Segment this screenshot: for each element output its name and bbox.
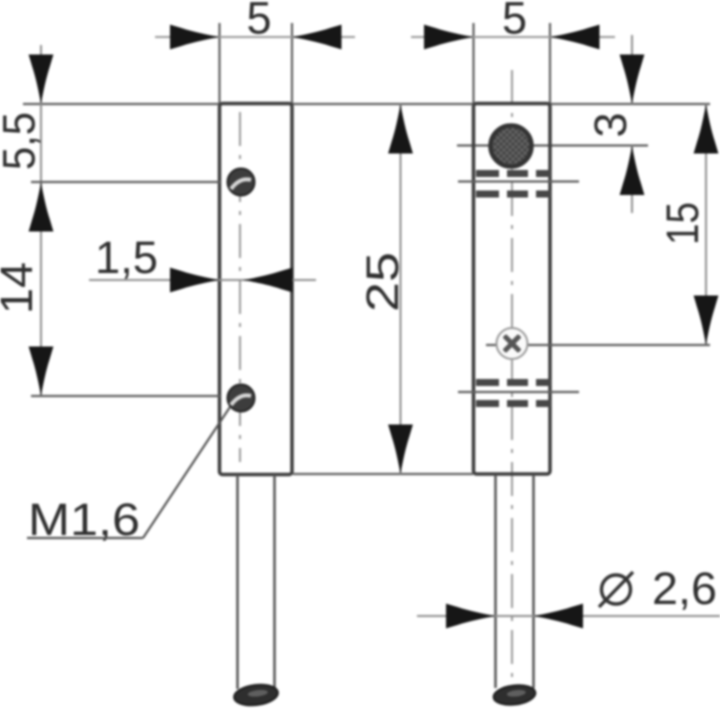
centerline of screws (dash-dot)	[239, 112, 241, 462]
dimension line 5 (top left)	[155, 36, 355, 38]
arrow 5 right	[550, 25, 600, 50]
arrow 5 right	[292, 25, 342, 50]
cable end right	[492, 683, 536, 707]
diameter symbol	[602, 575, 631, 604]
extension line left edge above body	[472, 23, 474, 103]
arrow 5 left	[170, 25, 220, 50]
svg-text:2,6: 2,6	[652, 563, 717, 614]
thread section top: upper dash row	[476, 170, 551, 177]
dimension 1,5	[89, 232, 316, 292]
svg-text:14: 14	[0, 262, 42, 314]
dimension 15	[657, 104, 718, 345]
thread section bottom: upper dash row	[476, 379, 551, 386]
dimension 3 (right of circle)	[585, 35, 644, 213]
extension line right edge above body	[291, 23, 293, 103]
arrow 5,5 top (down, tip y=104)	[29, 55, 54, 105]
extension line y=104 across full drawing	[23, 103, 710, 105]
svg-text:5,5: 5,5	[0, 112, 45, 170]
label M1,6 with leader	[27, 407, 230, 545]
arrow 14 bottom (down, tip y=396)	[29, 347, 54, 397]
body outline left view	[220, 104, 293, 475]
svg-text:1,5: 1,5	[95, 232, 158, 283]
dimension diameter 2,6	[417, 563, 720, 628]
svg-text:5: 5	[247, 0, 272, 44]
centerline right view (dash-dot)	[511, 70, 513, 686]
svg-text:5: 5	[502, 0, 527, 44]
arrow 14 top (up, tip y=182)	[29, 182, 54, 232]
upper set screw (side view)	[228, 169, 255, 196]
thread section bottom: mid line	[458, 391, 579, 393]
cable end left	[233, 682, 279, 707]
extension line left edge above body	[218, 23, 220, 103]
svg-text:25: 25	[357, 252, 408, 312]
extension line through sensing circle center y=145.5	[457, 144, 648, 146]
cable left view	[236, 475, 239, 689]
dimension line 5 (top right)	[411, 36, 615, 38]
extension line y=345 (cross screw center)	[486, 344, 710, 346]
extension line y=182 (upper screw)	[31, 181, 220, 183]
body outline right view	[474, 104, 551, 475]
thread section bottom: lower dash row	[476, 400, 551, 407]
thread section top: lower dash row	[476, 191, 551, 198]
sensing face circle (hatched)	[491, 126, 532, 167]
extension line y=396 (lower screw)	[31, 395, 220, 397]
dimension line 5,5 / 14 vertical at x=41	[40, 45, 42, 396]
thread section top: mid line	[458, 180, 579, 182]
extension line y=474 between views	[293, 473, 473, 475]
svg-text:15: 15	[657, 202, 708, 245]
arrow 5 left	[424, 25, 474, 50]
extension line right edge above body	[549, 23, 551, 103]
cable right view	[494, 475, 497, 688]
lower set screw (side view)	[228, 385, 255, 412]
dimension 25	[357, 104, 413, 474]
svg-text:3: 3	[585, 112, 636, 137]
cross-slot screw front view	[496, 328, 527, 359]
